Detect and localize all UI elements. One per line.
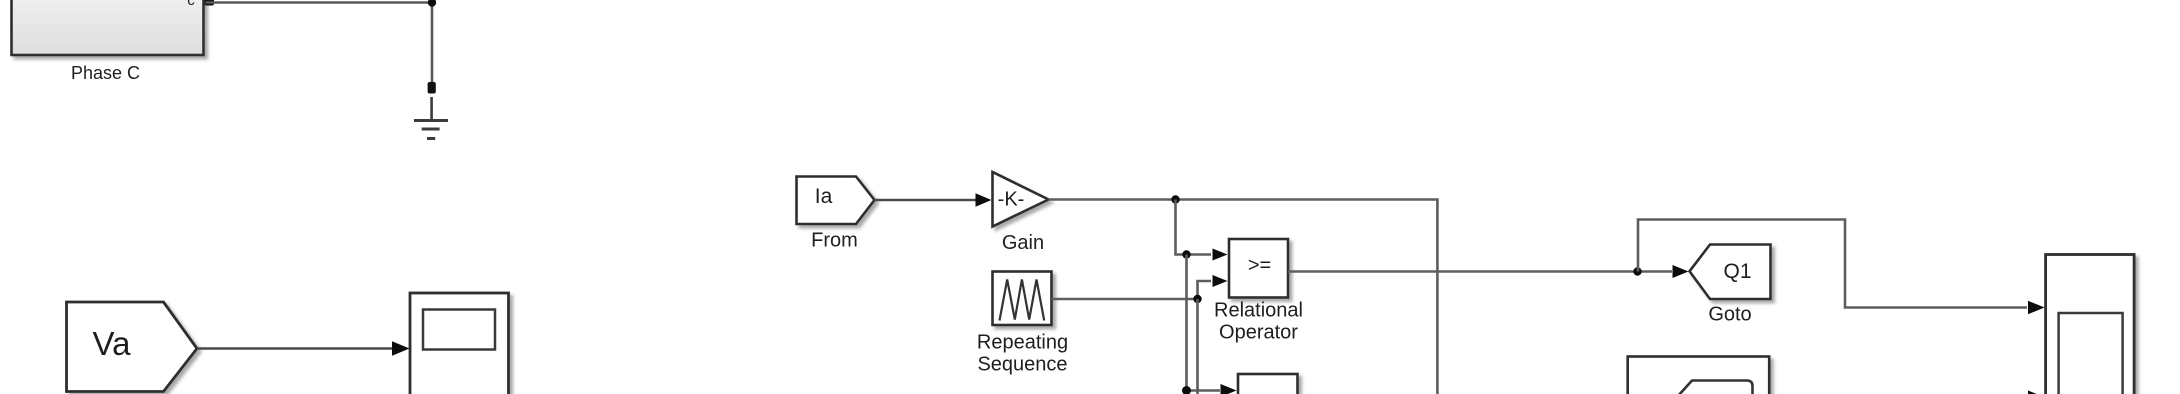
wire down to lower comparator input 2	[1196, 299, 1199, 394]
svg-text:Q1: Q1	[1723, 260, 1751, 283]
wire down to lower comparator input 1	[1187, 255, 1221, 391]
arrowhead into scope 2	[2028, 301, 2045, 314]
lower comparator block	[1238, 374, 1298, 394]
svg-text:Gain: Gain	[1002, 232, 1044, 254]
svg-text:Relational: Relational	[1214, 300, 1303, 322]
subsystem Phase C	[12, 0, 204, 55]
port blob at Phase C output	[205, 0, 215, 6]
from tag Ia	[797, 177, 875, 225]
node on gain wire	[1171, 195, 1179, 203]
wire branch down to relational operator input 1	[1176, 200, 1212, 255]
scope 2 screen	[2059, 313, 2123, 394]
saturation icon	[1678, 381, 1753, 394]
svg-text:Repeating: Repeating	[977, 332, 1068, 354]
wire gain output to right vertical	[1049, 200, 1438, 394]
wire Va to Scope	[197, 347, 394, 350]
wire branch up and over to scope 2	[1638, 220, 2027, 308]
svg-text:Phase C: Phase C	[71, 63, 140, 83]
node at lower junction	[1182, 386, 1191, 394]
ground	[414, 97, 448, 139]
repeating sequence icon	[1000, 280, 1045, 321]
svg-text:Va: Va	[93, 325, 132, 362]
arrowhead into relational operator input 2	[1213, 275, 1228, 287]
svg-text:Goto: Goto	[1708, 304, 1751, 326]
svg-text:Sequence: Sequence	[977, 354, 1067, 376]
arrowhead into relational operator input 1	[1213, 249, 1228, 261]
arrowhead into goto Q1	[1673, 265, 1689, 278]
svg-text:c: c	[187, 0, 195, 9]
node at wire corner	[428, 0, 436, 7]
arrowhead into gain	[976, 193, 992, 207]
scope 2 (tall)	[2046, 255, 2135, 394]
repeating sequence	[993, 272, 1052, 326]
wire repeating sequence to relational operator input 2	[1052, 281, 1212, 299]
node on input-1 stub	[1182, 250, 1190, 258]
svg-text:-K-: -K-	[998, 189, 1025, 211]
port square of ground block	[428, 82, 436, 94]
svg-text:From: From	[811, 230, 858, 252]
wire relational operator output to goto Q1	[1288, 270, 1672, 273]
arrowhead into lower comparator input 1	[1221, 384, 1237, 394]
svg-text:Ia: Ia	[815, 185, 833, 208]
arrowhead into scope	[392, 341, 410, 356]
node before goto	[1633, 267, 1641, 275]
arrowhead into scope 2 lower input	[2028, 391, 2045, 394]
svg-text:>=: >=	[1248, 255, 1271, 277]
gain -K-	[993, 172, 1049, 227]
from tag Va	[67, 302, 198, 392]
wire from Phase C port c to ground	[206, 3, 433, 85]
svg-text:Operator: Operator	[1219, 322, 1298, 344]
scope block	[410, 293, 509, 394]
node on repeating sequence wire	[1193, 295, 1201, 303]
goto tag Q1	[1690, 245, 1771, 300]
saturation block	[1628, 357, 1770, 394]
scope screen	[423, 310, 495, 350]
relational operator	[1229, 239, 1288, 298]
wire Ia to Gain	[875, 199, 977, 202]
